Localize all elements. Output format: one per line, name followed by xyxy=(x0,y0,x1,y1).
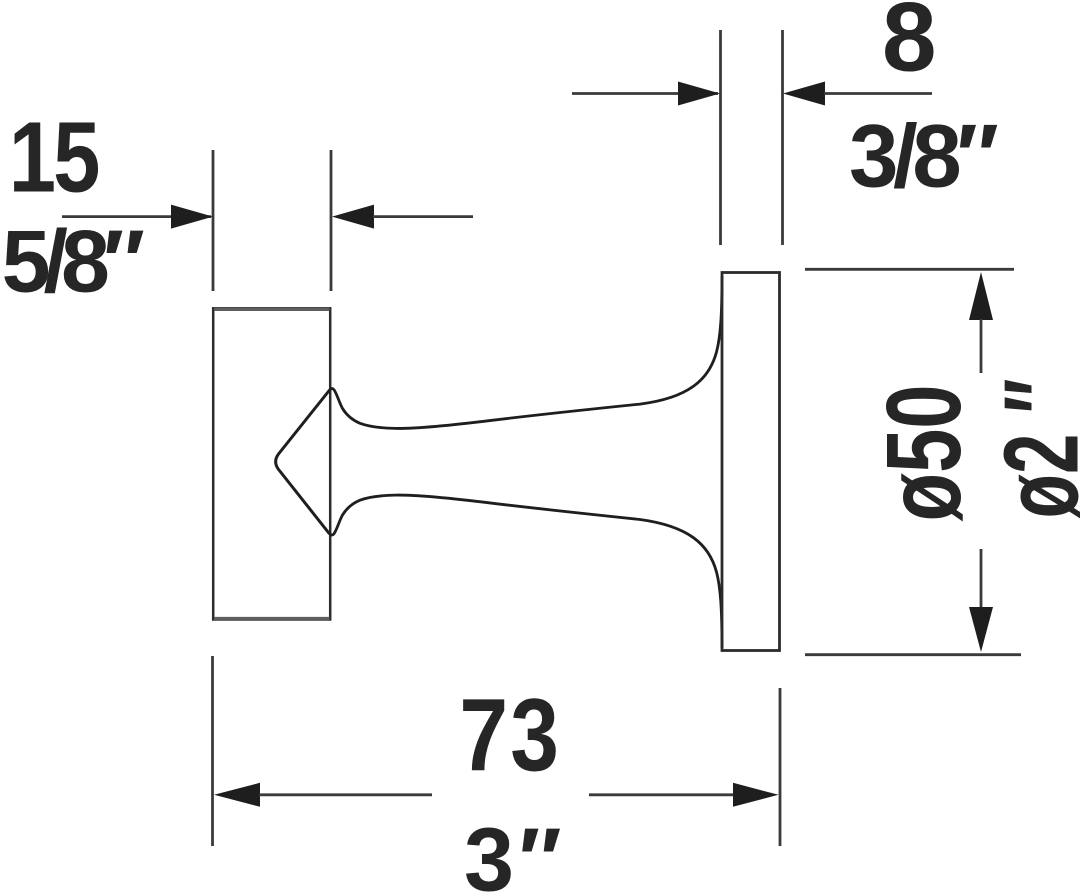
svg-text:3/8″: 3/8″ xyxy=(849,106,998,206)
dimension 15: right extension line xyxy=(330,150,333,291)
dimension 73: right leader line xyxy=(589,793,734,796)
svg-text:ø2 ″: ø2 ″ xyxy=(983,379,1080,519)
dimension 73: right extension line xyxy=(779,688,782,846)
knob face plate (left rectangle of hook) xyxy=(213,308,330,619)
dimension 8: right extension line xyxy=(781,30,784,245)
svg-text:ø50: ø50 xyxy=(865,385,983,522)
label 3/8 inch xyxy=(849,106,998,206)
svg-text:3 ″: 3 ″ xyxy=(464,811,560,896)
label 3 inch xyxy=(464,811,560,896)
svg-text:15: 15 xyxy=(9,101,99,213)
dimension 73: left arrowhead pointing left xyxy=(214,783,260,807)
dimension diameter 50: bottom extension line xyxy=(805,653,1021,656)
label diameter 2 inch (rotated) xyxy=(983,379,1080,519)
dimension 8: left leader line xyxy=(572,92,718,95)
label 5/8 inch xyxy=(2,212,144,311)
stem lower outline xyxy=(330,495,722,648)
label 8 (mm) xyxy=(882,0,937,92)
dimension 15: left extension line xyxy=(212,150,215,291)
dimension diameter 50: top extension line xyxy=(805,268,1014,271)
svg-text:5/8″: 5/8″ xyxy=(2,212,144,311)
dimension diameter 50: top arrowhead pointing up xyxy=(969,272,993,320)
dimension 73: left leader line xyxy=(259,793,432,796)
label 73 (mm) xyxy=(459,678,561,793)
svg-text:8: 8 xyxy=(882,0,937,92)
dimension 15: right arrowhead pointing left xyxy=(332,205,374,229)
dimension 73: left extension line xyxy=(211,656,214,846)
stem upper outline xyxy=(330,276,722,428)
dimension diameter 50: bottom leader line xyxy=(980,549,983,608)
label diameter 50 mm (rotated) xyxy=(865,385,983,522)
dimension diameter 50: bottom arrowhead pointing down xyxy=(969,607,993,652)
dimension diameter 50: top leader line xyxy=(980,319,983,373)
dimension 15: left leader line xyxy=(62,215,211,218)
dimension 8: right leader line xyxy=(824,92,932,95)
dimension 8: left extension line xyxy=(719,30,722,245)
wall flange (right rectangle of hook) xyxy=(722,273,780,651)
dimension 8: left arrowhead pointing right xyxy=(678,82,720,106)
dimension 15: right leader line xyxy=(373,215,473,218)
dimension 15: left arrowhead pointing right xyxy=(171,205,213,229)
svg-text:73: 73 xyxy=(459,678,561,793)
dimension 8: right arrowhead pointing left xyxy=(783,82,825,106)
dimension 73: right arrowhead pointing right xyxy=(733,783,779,807)
label 15 (mm) xyxy=(9,101,99,213)
cone silhouette chevron of knob xyxy=(276,390,330,534)
